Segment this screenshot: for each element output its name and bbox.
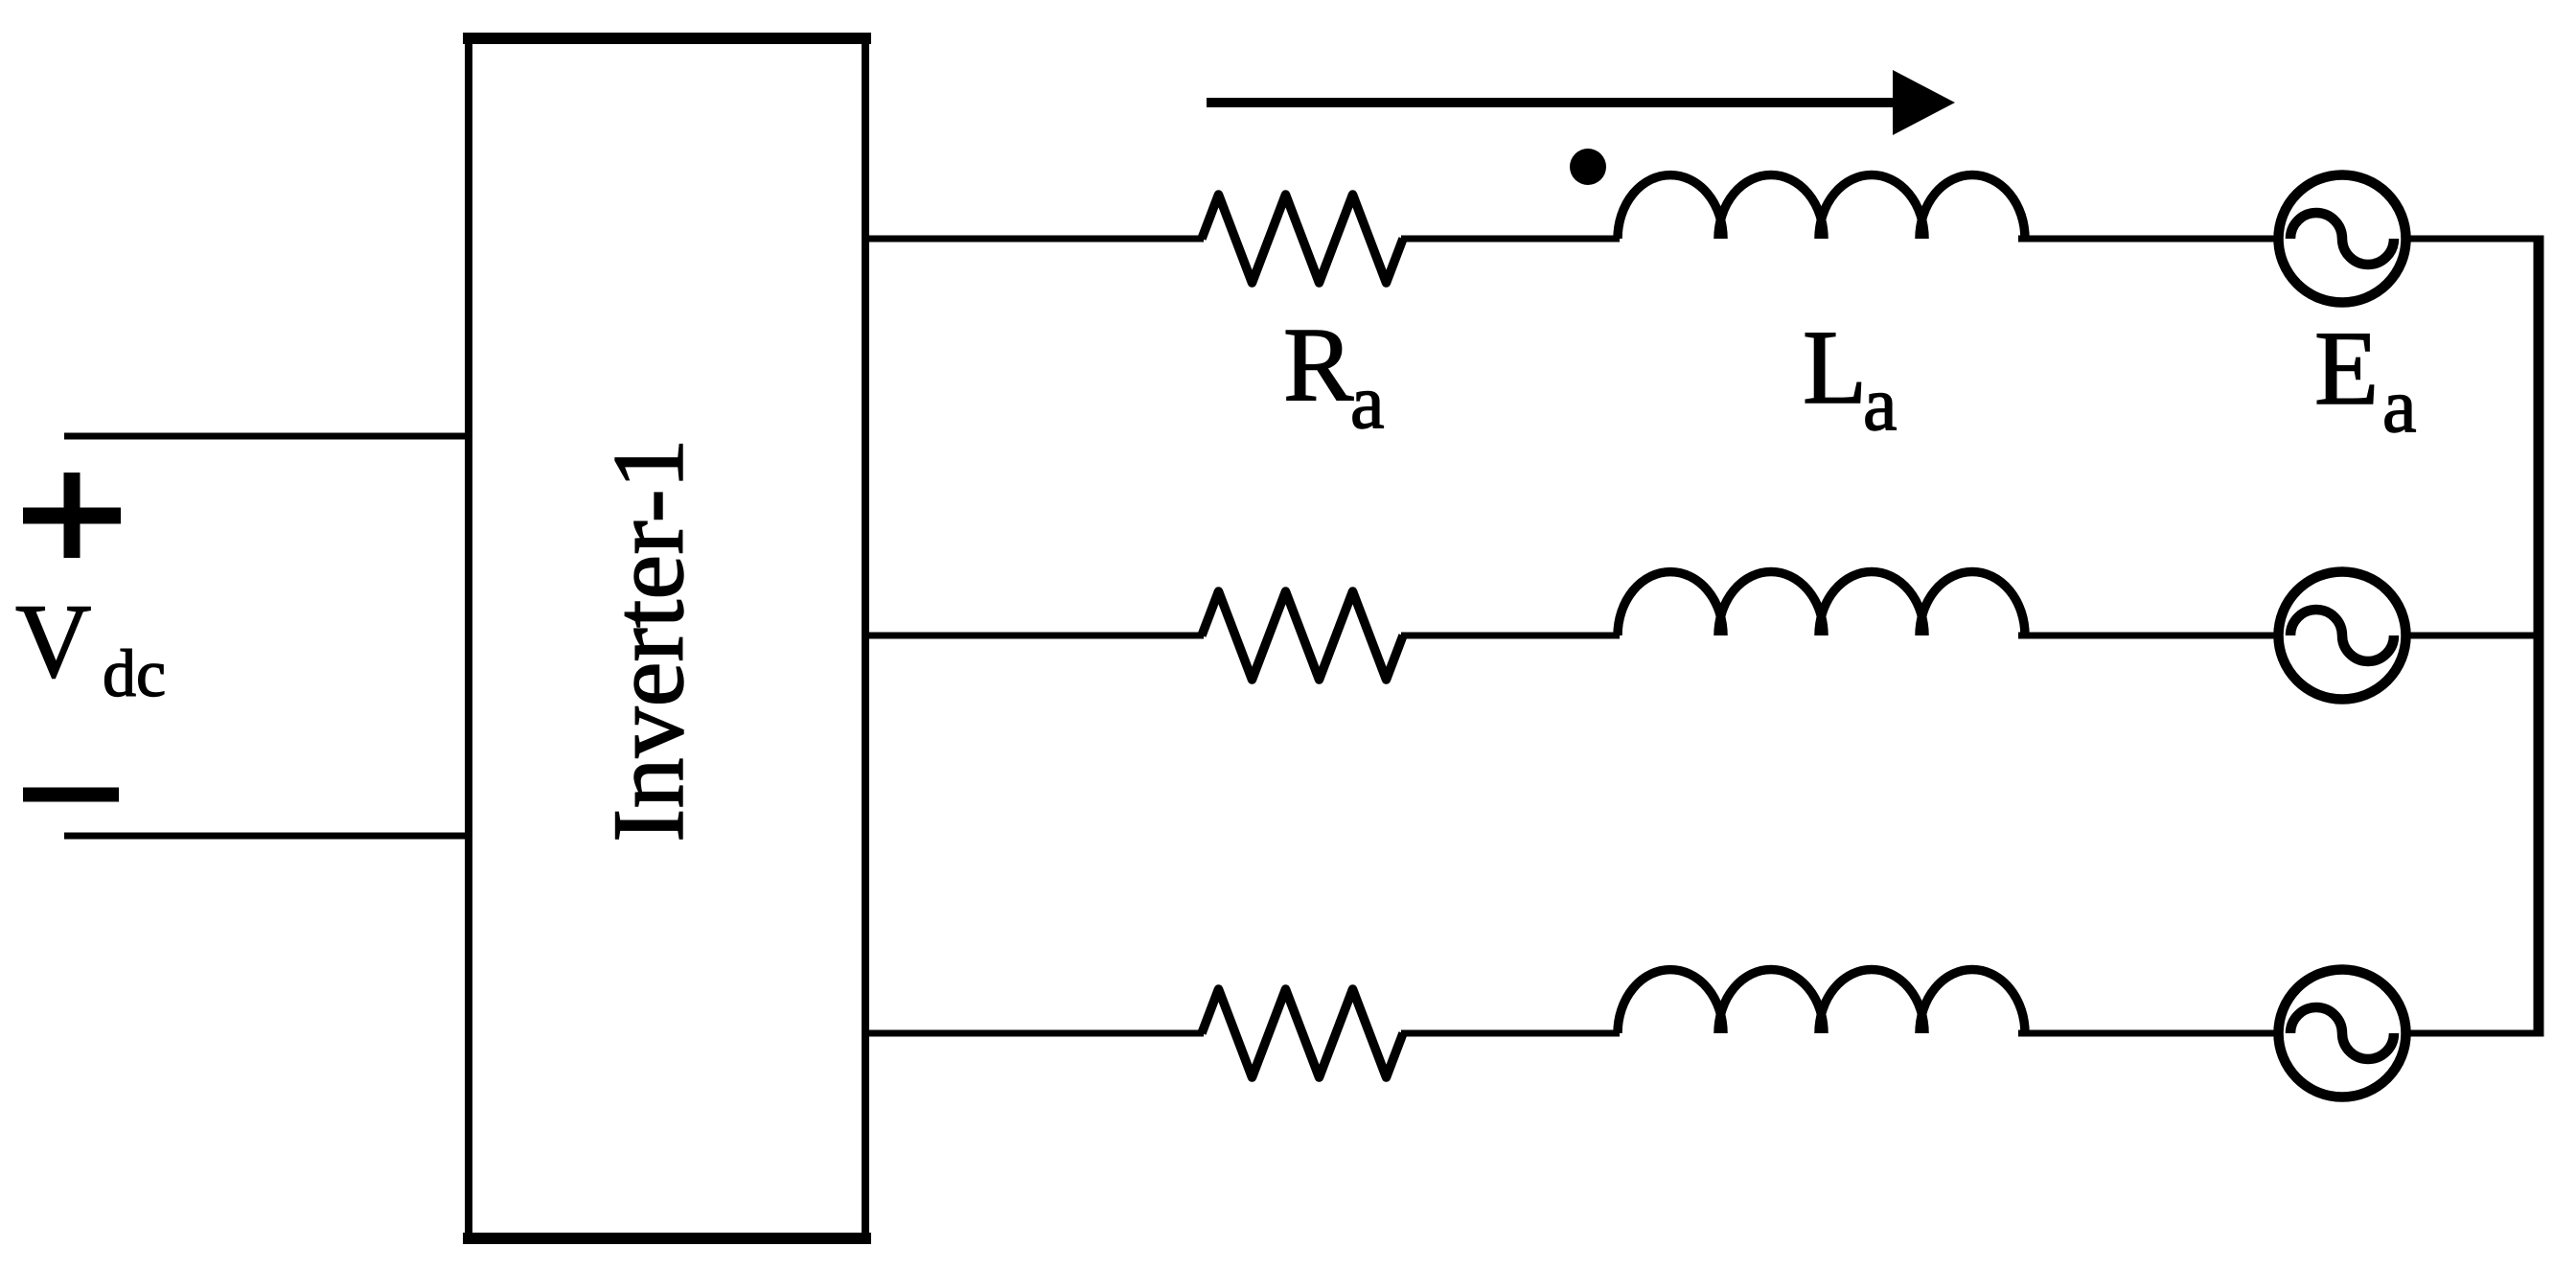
svg-text:R: R: [1283, 306, 1354, 423]
wire source to right bus (phase B): [2403, 633, 2544, 639]
inverter U1 box: [463, 33, 871, 1244]
svg-text:a: a: [1350, 360, 1385, 445]
svg-text:a: a: [2382, 364, 2417, 449]
resistor R (phase C): [1202, 989, 1403, 1077]
wire source to right bus (phase A): [2403, 236, 2544, 242]
wire inductor to source (phase C): [2018, 1030, 2281, 1037]
label La: [1803, 309, 1897, 447]
wire DC negative input: [64, 833, 469, 840]
svg-text:a: a: [1863, 362, 1897, 447]
minus sign of source Vdc: [23, 788, 119, 802]
wire inductor to source (phase B): [2018, 633, 2281, 639]
svg-text:dc: dc: [103, 637, 166, 711]
inductor L (phase B): [1618, 572, 2025, 636]
inductor polarity dot: [1570, 149, 1606, 185]
wire source to right bus (phase C): [2403, 1030, 2544, 1037]
label Ea: [2314, 310, 2417, 449]
svg-text:Inverter-1: Inverter-1: [592, 438, 704, 843]
resistor Ra (phase A): [1202, 195, 1403, 283]
AC source sine (phase B): [2290, 610, 2394, 661]
inductor L (phase C): [1618, 970, 2025, 1033]
svg-text:L: L: [1803, 309, 1867, 426]
wire resistor to inductor (phase A): [1401, 236, 1620, 242]
inductor La (phase A): [1618, 175, 2025, 240]
svg-text:E: E: [2314, 310, 2379, 427]
wire resistor to inductor (phase C): [1401, 1030, 1620, 1037]
AC source sine (phase C): [2290, 1007, 2394, 1059]
AC source Ea circle (phase A): [2279, 175, 2406, 303]
svg-text:V: V: [15, 583, 91, 700]
AC source Ea sine (phase A): [2290, 213, 2394, 265]
wire inductor to source (phase A): [2018, 236, 2281, 242]
plus sign of source Vdc: [23, 473, 121, 558]
label Ra: [1283, 306, 1385, 445]
wire DC positive input: [64, 433, 469, 440]
current direction arrow: [1207, 70, 1955, 135]
wire resistor to inductor (phase B): [1401, 633, 1620, 639]
resistor R (phase B): [1202, 591, 1403, 680]
AC source circle (phase C): [2279, 970, 2406, 1097]
wire inverter to resistor (phase C): [865, 1030, 1204, 1037]
AC source circle (phase B): [2279, 572, 2406, 700]
wire inverter to resistor (phase A): [865, 236, 1204, 242]
right bus wire (neutral): [2534, 236, 2544, 1037]
wire inverter to resistor (phase B): [865, 633, 1204, 639]
label Vdc: [15, 583, 166, 711]
